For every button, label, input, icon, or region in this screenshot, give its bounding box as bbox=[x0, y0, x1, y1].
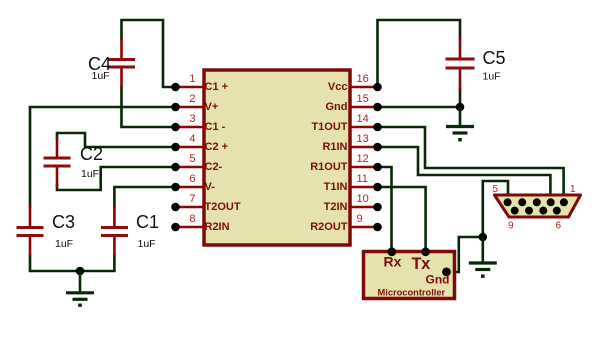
svg-text:1uF: 1uF bbox=[92, 70, 110, 82]
svg-text:C2 +: C2 + bbox=[205, 141, 229, 153]
pin 3 C1- bbox=[171, 113, 225, 133]
svg-text:Rx: Rx bbox=[384, 254, 402, 270]
svg-text:V+: V+ bbox=[205, 101, 219, 113]
ground symbol under C5 bbox=[446, 107, 474, 140]
wire pin2 V+ to C3 top bbox=[30, 107, 176, 208]
wire pin1 to C4 top bbox=[122, 20, 176, 87]
wire pin6 V- to C1 top bbox=[114, 187, 175, 208]
svg-text:T2OUT: T2OUT bbox=[205, 201, 241, 213]
svg-text:14: 14 bbox=[357, 113, 369, 125]
pin 8 R2IN bbox=[171, 213, 229, 233]
svg-text:4: 4 bbox=[189, 133, 195, 145]
svg-text:6: 6 bbox=[556, 221, 562, 232]
svg-text:V-: V- bbox=[205, 181, 216, 193]
svg-text:1uF: 1uF bbox=[483, 71, 501, 83]
svg-text:2: 2 bbox=[189, 93, 195, 105]
node C5 ground junction bbox=[456, 103, 465, 112]
wire microcontroller Gnd to ground junction bbox=[447, 237, 483, 272]
svg-text:Vcc: Vcc bbox=[328, 81, 348, 93]
pin 10 T2IN bbox=[324, 193, 382, 213]
wire pin14 T1OUT to DB9 pin1 bbox=[378, 127, 564, 194]
ground symbol near microcontroller bbox=[469, 237, 497, 276]
svg-text:Microcontroller: Microcontroller bbox=[378, 288, 446, 298]
microcontroller block bbox=[364, 247, 455, 298]
wire pin16 Vcc to C5 top bbox=[378, 20, 461, 87]
svg-text:R1OUT: R1OUT bbox=[310, 161, 348, 173]
capacitor C1 bbox=[101, 206, 159, 256]
pin 11 T1IN bbox=[324, 173, 382, 193]
pin 1 C1+ bbox=[171, 73, 228, 93]
svg-text:3: 3 bbox=[189, 113, 195, 125]
svg-text:15: 15 bbox=[357, 93, 369, 105]
pin 12 R1OUT bbox=[310, 153, 382, 173]
svg-text:C5: C5 bbox=[483, 48, 506, 68]
wire C1 bottom to ground junction bbox=[80, 254, 114, 271]
svg-text:Gnd: Gnd bbox=[326, 101, 348, 113]
pin 15 Gnd bbox=[326, 93, 382, 113]
pin 6 V- bbox=[171, 173, 215, 193]
svg-text:C1 -: C1 - bbox=[205, 121, 226, 133]
svg-text:10: 10 bbox=[357, 193, 369, 205]
svg-text:C1 +: C1 + bbox=[205, 81, 229, 93]
svg-text:T2IN: T2IN bbox=[324, 201, 348, 213]
wire pin5 to C2 bottom bbox=[57, 167, 176, 190]
capacitor C5 bbox=[446, 38, 506, 90]
wire pin4 to C2 top bbox=[57, 133, 176, 147]
svg-text:5: 5 bbox=[189, 153, 195, 165]
svg-text:1uF: 1uF bbox=[138, 238, 156, 250]
wire pin13 R1IN to DB9 pin2 bbox=[378, 147, 551, 194]
ground symbol bottom-left bbox=[66, 271, 94, 305]
pin 14 T1OUT bbox=[311, 113, 381, 133]
svg-text:C3: C3 bbox=[52, 212, 75, 232]
wire pin12 R1OUT to Rx bbox=[378, 167, 392, 252]
pin 4 C2+ bbox=[171, 133, 228, 153]
svg-text:T1IN: T1IN bbox=[324, 181, 348, 193]
svg-text:Gnd: Gnd bbox=[426, 273, 450, 287]
pin 2 V+ bbox=[171, 93, 218, 113]
wire pin3 to C4 bottom bbox=[122, 86, 176, 127]
svg-text:16: 16 bbox=[357, 73, 369, 85]
node DB9 ground junction bbox=[479, 233, 488, 242]
wire C5 bottom to pin15 junction bbox=[459, 88, 462, 107]
IC U1 MAX232 body bbox=[204, 70, 350, 245]
pin 13 R1IN bbox=[322, 133, 381, 153]
svg-text:T1OUT: T1OUT bbox=[311, 121, 347, 133]
pin 16 Vcc bbox=[328, 73, 382, 93]
svg-text:C2-: C2- bbox=[205, 161, 223, 173]
wire C3 bottom to ground junction bbox=[30, 254, 80, 271]
wire pin11 T1IN to Tx bbox=[378, 187, 426, 252]
svg-text:1uF: 1uF bbox=[81, 168, 99, 180]
pin 5 C2- bbox=[171, 153, 222, 173]
wire ground junction to DB9 pin5 bbox=[483, 181, 508, 237]
svg-text:9: 9 bbox=[508, 221, 514, 232]
svg-text:1: 1 bbox=[570, 184, 576, 195]
svg-text:9: 9 bbox=[357, 213, 363, 225]
svg-text:7: 7 bbox=[189, 193, 195, 205]
svg-text:R2IN: R2IN bbox=[205, 221, 230, 233]
wire pin15 Gnd to junction bbox=[378, 106, 461, 109]
svg-text:6: 6 bbox=[189, 173, 195, 185]
svg-text:1uF: 1uF bbox=[55, 238, 73, 250]
node ground junction left bbox=[76, 267, 85, 276]
svg-text:11: 11 bbox=[357, 173, 368, 185]
svg-text:8: 8 bbox=[189, 213, 195, 225]
pin 7 T2OUT bbox=[171, 193, 241, 213]
svg-text:R1IN: R1IN bbox=[322, 141, 347, 153]
svg-text:Tx: Tx bbox=[412, 255, 432, 273]
svg-text:R2OUT: R2OUT bbox=[310, 221, 348, 233]
svg-text:C2: C2 bbox=[80, 144, 103, 164]
pin 9 R2OUT bbox=[310, 213, 382, 233]
svg-text:1: 1 bbox=[189, 73, 195, 85]
svg-text:C1: C1 bbox=[136, 212, 159, 232]
svg-text:13: 13 bbox=[357, 133, 369, 145]
capacitor C2 bbox=[44, 137, 104, 187]
DB9 connector J1 bbox=[493, 184, 581, 232]
capacitor C4 bbox=[88, 38, 135, 88]
capacitor C3 bbox=[17, 206, 76, 256]
svg-text:12: 12 bbox=[357, 153, 369, 165]
svg-text:5: 5 bbox=[493, 184, 499, 195]
